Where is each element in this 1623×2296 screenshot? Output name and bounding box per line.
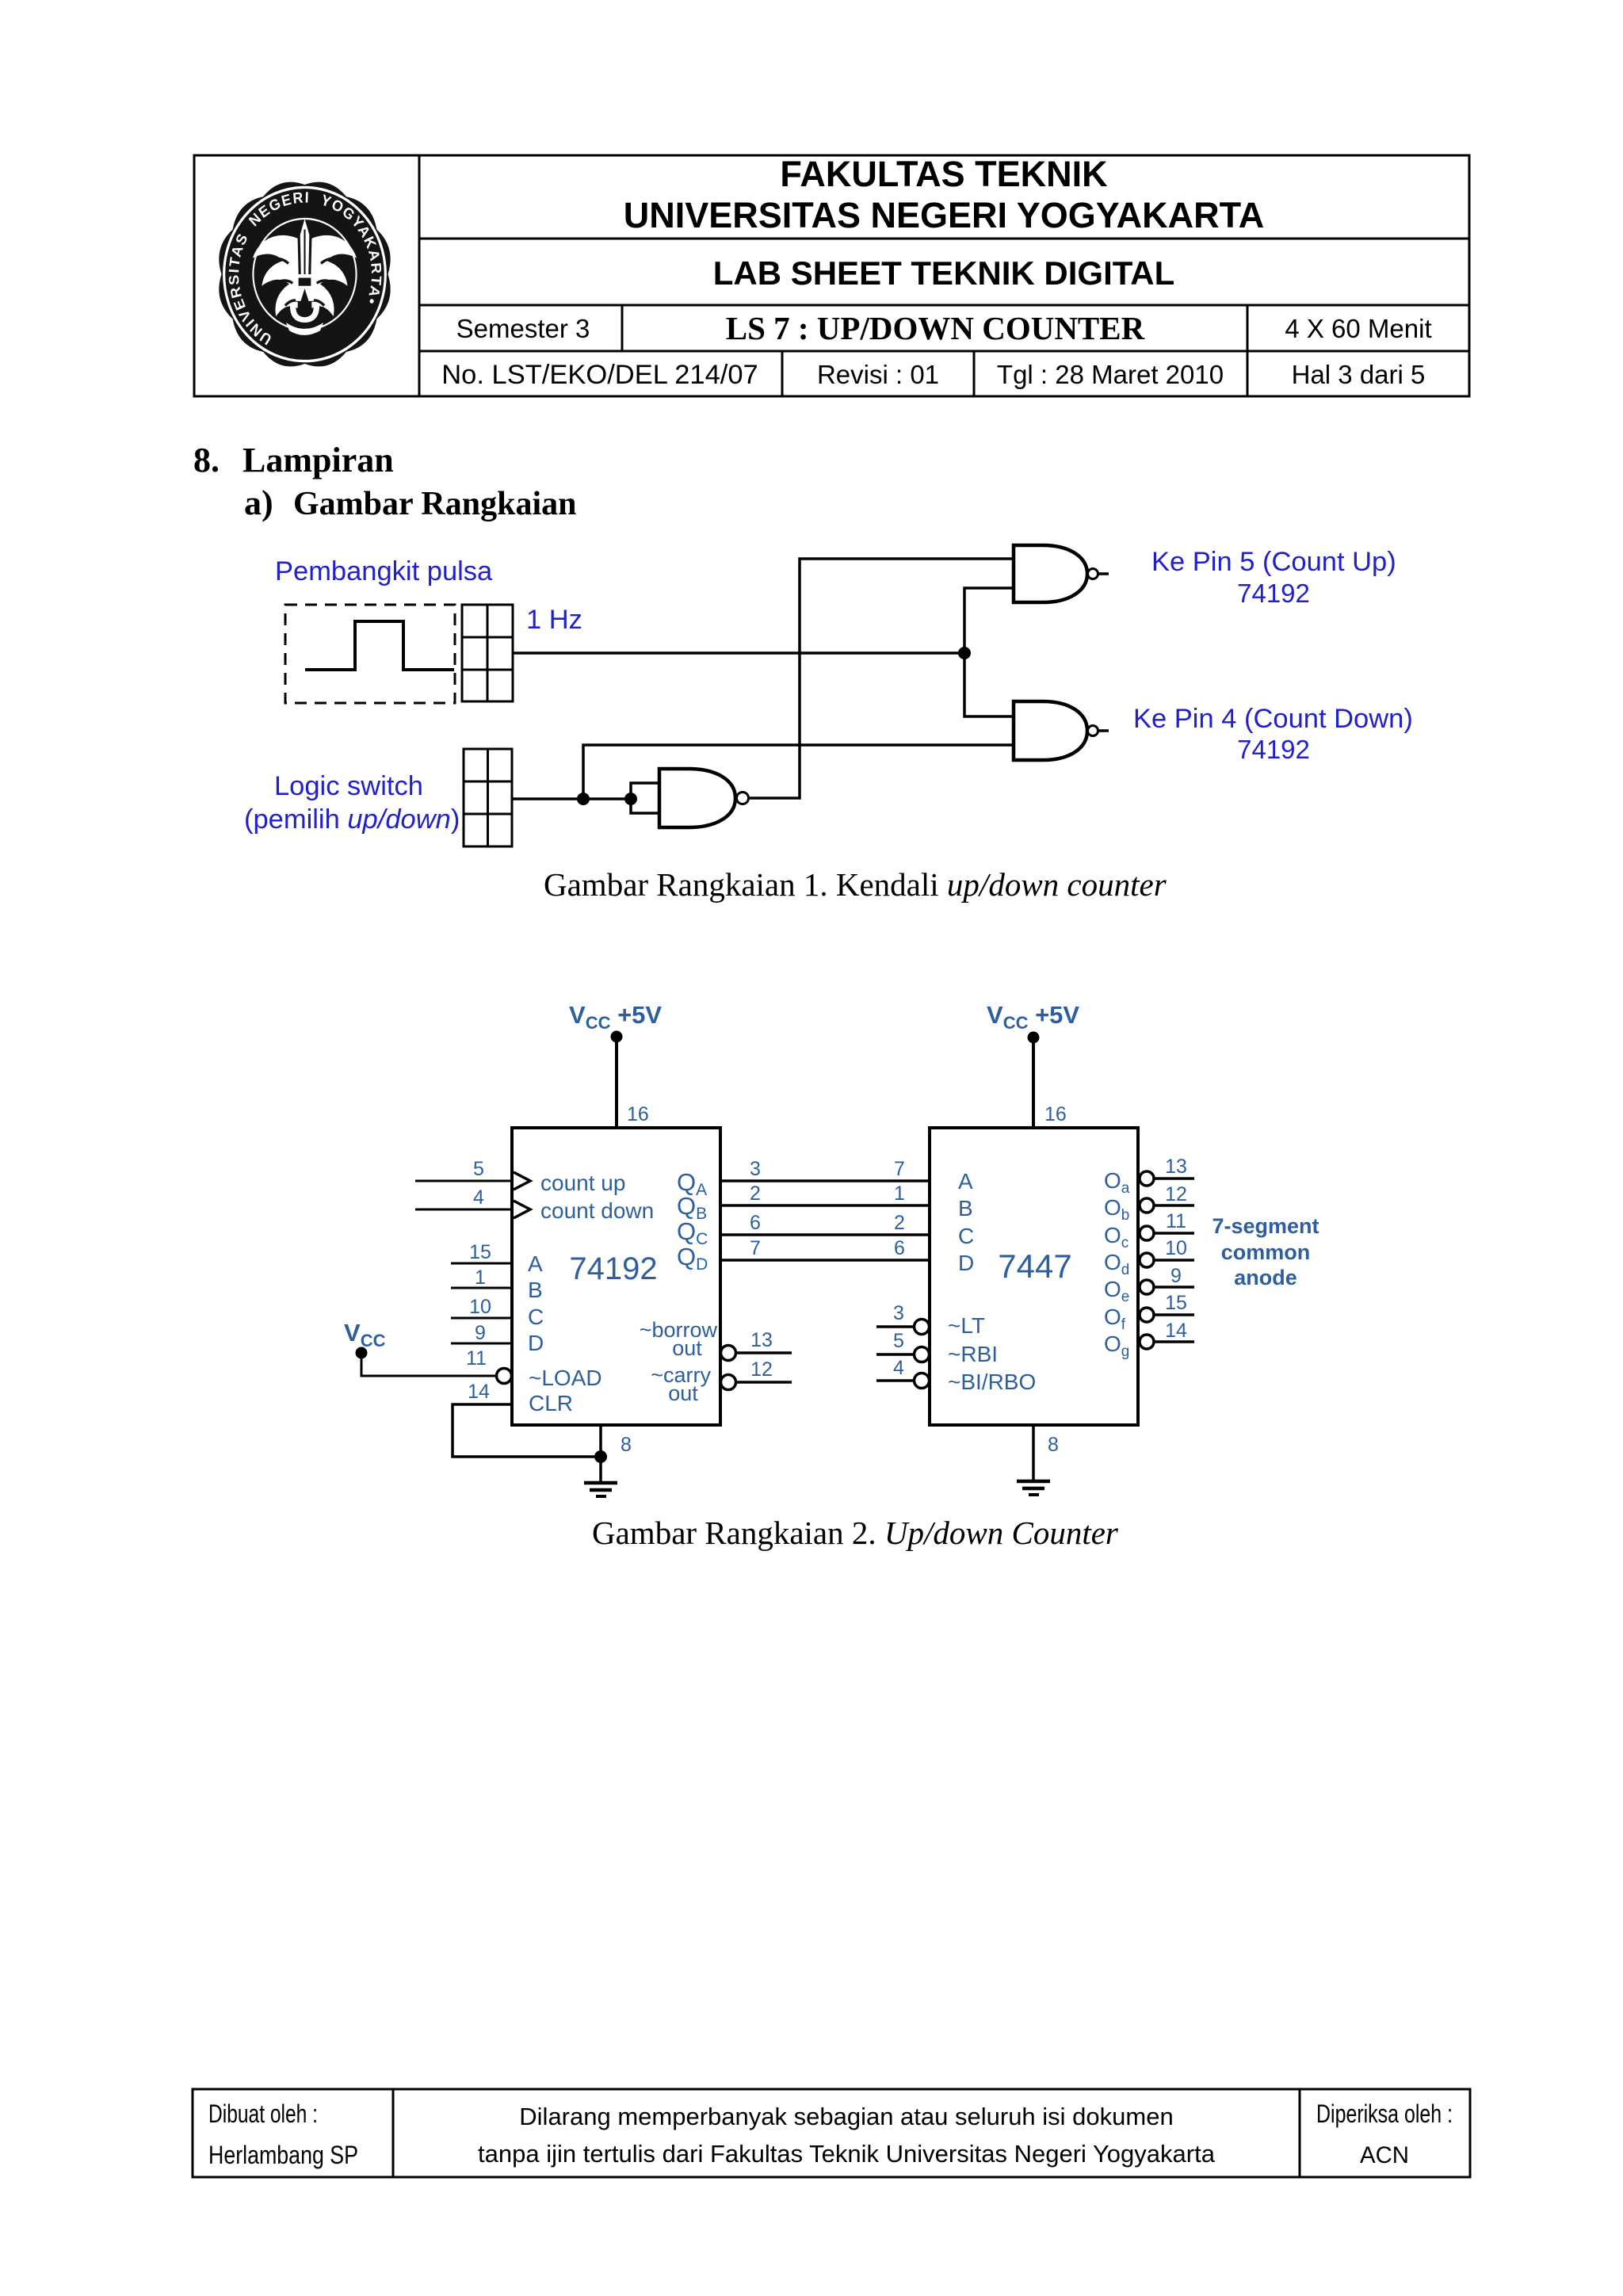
svg-text:12: 12 <box>1165 1183 1187 1205</box>
wire logic switch out <box>512 797 583 800</box>
wire pin15 A <box>451 1263 512 1265</box>
ground (74192) <box>584 1483 617 1496</box>
svg-text:1 Hz: 1 Hz <box>526 605 582 635</box>
svg-text:4: 4 <box>893 1357 904 1379</box>
tower <box>300 219 310 274</box>
IC U1 74192 box <box>512 1128 720 1425</box>
pin BI/RBO bubble <box>915 1373 930 1389</box>
svg-text:9: 9 <box>1170 1265 1182 1287</box>
svg-text:Dilarang memperbanyak sebagian: Dilarang memperbanyak sebagian atau selu… <box>519 2103 1173 2130</box>
svg-text:14: 14 <box>1165 1320 1187 1342</box>
svg-text:No. LST/EKO/DEL 214/07: No. LST/EKO/DEL 214/07 <box>441 360 758 390</box>
svg-text:CLR: CLR <box>529 1391 573 1415</box>
wire Vcc1 to pin16 <box>615 1037 618 1128</box>
wire switch to U2 input B <box>583 745 1014 799</box>
svg-text:74192: 74192 <box>1237 735 1310 764</box>
svg-text:1: 1 <box>475 1266 486 1289</box>
svg-text:LS 7 : UP/DOWN COUNTER: LS 7 : UP/DOWN COUNTER <box>726 310 1145 346</box>
svg-text:11: 11 <box>1166 1210 1186 1232</box>
svg-text:7-segment: 7-segment <box>1212 1214 1319 1238</box>
wire pin12 Ob <box>1154 1204 1194 1207</box>
svg-text:Gambar Rangkaian 1. Kendali up: Gambar Rangkaian 1. Kendali up/down coun… <box>544 866 1167 903</box>
svg-text:7: 7 <box>750 1237 761 1259</box>
svg-text:UNIVERSITAS NEGERI YOGYAKARTA: UNIVERSITAS NEGERI YOGYAKARTA <box>624 195 1264 235</box>
svg-text:VCC: VCC <box>344 1319 386 1350</box>
wire U3 output to U1 input A <box>749 559 1014 798</box>
pin RBI bubble <box>915 1347 930 1362</box>
svg-text:out: out <box>672 1336 702 1360</box>
svg-text:7: 7 <box>894 1158 905 1180</box>
svg-text:8.: 8. <box>193 441 220 479</box>
svg-text:4 X 60 Menit: 4 X 60 Menit <box>1285 314 1431 343</box>
wire pin15 Of <box>1154 1313 1194 1316</box>
svg-text:VCC +5V: VCC +5V <box>987 1001 1079 1033</box>
svg-text:16: 16 <box>1044 1103 1067 1125</box>
svg-text:~BI/RBO: ~BI/RBO <box>948 1370 1036 1394</box>
svg-text:Ke Pin 4 (Count Down): Ke Pin 4 (Count Down) <box>1133 704 1413 734</box>
node Vcc3 dot <box>1028 1032 1040 1044</box>
svg-text:count down: count down <box>540 1198 654 1223</box>
node J-ls2 <box>624 793 637 805</box>
svg-text:12: 12 <box>750 1358 773 1381</box>
svg-text:13: 13 <box>1165 1156 1187 1178</box>
pin Oe bubble <box>1140 1280 1154 1294</box>
wire pin4 count down <box>415 1209 512 1211</box>
svg-text:B: B <box>528 1278 543 1302</box>
svg-text:~LOAD: ~LOAD <box>529 1366 602 1390</box>
pin Od bubble <box>1140 1253 1154 1267</box>
wire Vcc to LOAD <box>361 1353 496 1376</box>
svg-text:C: C <box>958 1224 974 1248</box>
node Vcc1 dot <box>611 1031 623 1043</box>
svg-text:Gambar Rangkaian: Gambar Rangkaian <box>293 486 576 522</box>
node J-1hz <box>958 647 971 659</box>
wire pin11 Oc <box>1154 1232 1194 1235</box>
clock arrow count up <box>514 1172 530 1190</box>
node Vcc2 dot <box>356 1347 368 1359</box>
wire pin5 RBI <box>876 1353 914 1356</box>
pin Oc bubble <box>1140 1226 1154 1240</box>
svg-text:10: 10 <box>1165 1237 1187 1259</box>
svg-text:B: B <box>958 1196 973 1221</box>
wire pin10 C <box>451 1317 512 1320</box>
wire QA to A <box>720 1179 930 1182</box>
label 7-segment common anode <box>1212 1214 1319 1289</box>
wire Vcc3 to pin16 <box>1032 1037 1035 1128</box>
svg-text:8: 8 <box>1048 1434 1059 1456</box>
wire pin5 count up <box>415 1180 512 1182</box>
svg-text:5: 5 <box>893 1330 904 1352</box>
svg-text:14: 14 <box>468 1381 490 1403</box>
wire pin1 B <box>451 1287 512 1289</box>
svg-text:Hal 3 dari 5: Hal 3 dari 5 <box>1292 360 1426 389</box>
wire pin13 <box>736 1351 792 1354</box>
svg-text:A: A <box>958 1169 973 1194</box>
wire pin8 to ground <box>599 1425 602 1483</box>
svg-text:ACN: ACN <box>1360 2142 1409 2168</box>
svg-text:VCC +5V: VCC +5V <box>569 1001 662 1033</box>
wire pin10 Od <box>1154 1259 1194 1262</box>
pin Of bubble <box>1140 1308 1154 1322</box>
svg-text:5: 5 <box>473 1158 484 1180</box>
wire U3 input tie bar <box>631 783 659 813</box>
svg-text:out: out <box>668 1381 698 1405</box>
svg-text:3: 3 <box>750 1158 761 1180</box>
wire pin14 CLR to gnd net <box>453 1404 601 1457</box>
svg-text:D: D <box>958 1251 974 1275</box>
svg-text:11: 11 <box>466 1347 487 1370</box>
pulse waveform <box>305 621 454 670</box>
pin 12 bubble (carry) <box>721 1375 736 1390</box>
wire pin3 LT <box>876 1325 914 1328</box>
wire QD to D <box>720 1259 930 1262</box>
wire pin9 Oe <box>1154 1286 1194 1289</box>
svg-text:FAKULTAS TEKNIK: FAKULTAS TEKNIK <box>780 154 1108 194</box>
svg-text:Logic switch: Logic switch <box>274 771 423 801</box>
connector block J1 (pulse) <box>462 605 513 701</box>
svg-text:Herlambang SP: Herlambang SP <box>208 2141 358 2169</box>
svg-text:16: 16 <box>627 1103 649 1125</box>
pin Ob bubble <box>1140 1198 1154 1213</box>
svg-text:D: D <box>528 1331 544 1355</box>
wire pin12 <box>736 1381 792 1384</box>
svg-text:Revisi : 01: Revisi : 01 <box>817 360 939 389</box>
svg-text:~LT: ~LT <box>948 1313 985 1338</box>
wire U1 output stub <box>1098 572 1109 575</box>
svg-text:2: 2 <box>894 1212 905 1234</box>
svg-text:74192: 74192 <box>569 1251 657 1286</box>
wings <box>253 235 299 316</box>
wire pin8 to ground (7447) <box>1032 1425 1035 1481</box>
NAND gate U1 (count up) <box>1014 545 1087 602</box>
svg-text:4: 4 <box>473 1186 484 1209</box>
svg-text:A: A <box>528 1251 543 1276</box>
svg-text:~RBI: ~RBI <box>948 1342 998 1366</box>
svg-text:Ke Pin 5 (Count Up): Ke Pin 5 (Count Up) <box>1151 547 1396 577</box>
node gnd junction <box>594 1450 607 1463</box>
pin Og bubble <box>1140 1335 1154 1349</box>
wire U2 output stub <box>1098 729 1109 732</box>
svg-text:74192: 74192 <box>1237 579 1310 608</box>
svg-text:anode: anode <box>1234 1266 1297 1289</box>
ground (7447) <box>1017 1481 1050 1495</box>
pin Oa bubble <box>1140 1171 1154 1186</box>
pin LT bubble <box>915 1320 930 1335</box>
svg-text:6: 6 <box>894 1237 905 1259</box>
svg-text:Tgl : 28 Maret 2010: Tgl : 28 Maret 2010 <box>997 360 1224 389</box>
wire 1Hz to U1 input B <box>964 588 1014 653</box>
wire 1Hz net <box>513 651 964 655</box>
svg-text:C: C <box>528 1305 544 1329</box>
wire pin4 BI/RBO <box>876 1379 914 1382</box>
svg-text:Semester 3: Semester 3 <box>456 314 590 343</box>
svg-text:13: 13 <box>750 1329 773 1351</box>
wire switch to U3 <box>583 797 631 800</box>
node J-ls1 <box>577 793 590 805</box>
wire QB to B <box>720 1204 930 1207</box>
NAND gate U2 (count down) <box>1014 701 1087 760</box>
svg-text:2: 2 <box>750 1182 761 1205</box>
connector block J2 (logic switch) <box>464 749 512 846</box>
svg-text:a): a) <box>244 483 273 522</box>
svg-text:9: 9 <box>475 1322 486 1344</box>
svg-text:3: 3 <box>893 1302 904 1324</box>
wire pin13 Oa <box>1154 1177 1194 1180</box>
svg-text:common: common <box>1221 1240 1311 1264</box>
svg-text:count up: count up <box>540 1171 625 1195</box>
pin 11 bubble <box>497 1369 512 1384</box>
svg-text:Lampiran: Lampiran <box>242 441 394 479</box>
lyre base <box>290 304 319 323</box>
clock arrow count down <box>514 1201 530 1218</box>
svg-text:1: 1 <box>894 1182 905 1205</box>
svg-text:8: 8 <box>621 1434 632 1456</box>
svg-text:7447: 7447 <box>998 1247 1071 1285</box>
svg-text:(pemilih up/down): (pemilih up/down) <box>244 804 460 835</box>
pulse generator dashed box <box>285 605 455 703</box>
svg-text:6: 6 <box>750 1212 761 1234</box>
wire pin9 D <box>451 1343 512 1345</box>
wire pin14 Og <box>1154 1340 1194 1343</box>
svg-text:Gambar Rangkaian 2. Up/down Co: Gambar Rangkaian 2. Up/down Counter <box>592 1515 1119 1551</box>
wire QC to C <box>720 1233 930 1236</box>
svg-text:15: 15 <box>469 1241 491 1263</box>
svg-text:tanpa ijin tertulis dari Fakul: tanpa ijin tertulis dari Fakultas Teknik… <box>478 2140 1216 2168</box>
svg-text:Dibuat oleh :: Dibuat oleh : <box>208 2099 318 2128</box>
svg-text:Pembangkit pulsa: Pembangkit pulsa <box>275 556 493 586</box>
NAND gate U3 (inverter) <box>659 769 735 827</box>
wire 1Hz to U2 input A <box>964 653 1014 716</box>
svg-text:10: 10 <box>469 1296 491 1318</box>
pin 13 bubble (borrow) <box>721 1346 736 1361</box>
svg-text:Diperiksa oleh :: Diperiksa oleh : <box>1316 2099 1453 2128</box>
svg-text:LAB SHEET TEKNIK DIGITAL: LAB SHEET TEKNIK DIGITAL <box>713 254 1175 292</box>
svg-text:15: 15 <box>1165 1292 1187 1314</box>
IC U2 7447 box <box>930 1128 1138 1425</box>
